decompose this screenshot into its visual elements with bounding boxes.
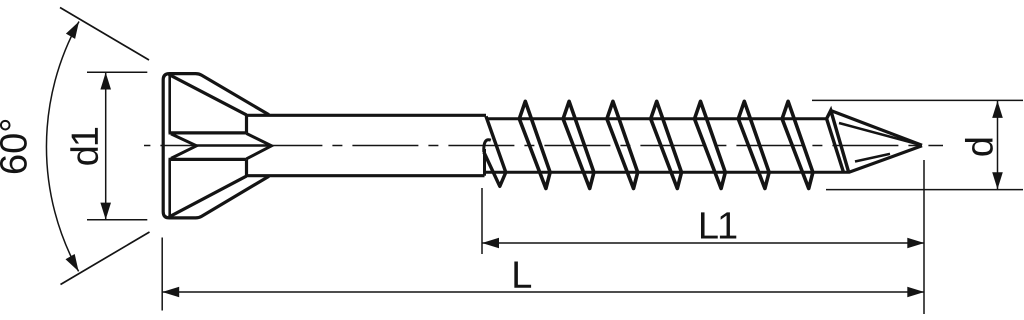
tip inner lower line — [855, 154, 890, 162]
thread root top line — [486, 117, 827, 120]
L extension line left — [161, 238, 163, 311]
L1 extension line left — [481, 188, 483, 254]
label L1 — [701, 212, 736, 238]
d1 arrow bottom — [100, 203, 111, 220]
60deg arc arrow top — [66, 22, 79, 39]
60deg upper construction line — [60, 8, 149, 61]
d extension line bottom — [826, 189, 1023, 191]
tip cone upper edge — [831, 111, 922, 146]
label 60deg — [0, 120, 27, 173]
head rim vertical bottom — [245, 159, 248, 176]
L arrow left — [162, 287, 179, 298]
head near-side cone edge top — [169, 74, 247, 115]
thread tooth 4 — [651, 101, 682, 188]
d extension line top — [812, 99, 1023, 101]
head outer silhouette — [163, 74, 269, 218]
thread start vertical — [483, 149, 486, 176]
label d — [965, 139, 993, 156]
d dimension line — [997, 101, 999, 189]
shank top edge — [247, 114, 487, 117]
recess right V — [247, 134, 272, 159]
L dimension line — [162, 291, 924, 293]
recess slot top edge — [169, 131, 247, 134]
recess slot bottom edge — [169, 158, 247, 161]
thread root bottom line — [485, 171, 850, 174]
thread tooth 2 — [563, 101, 594, 188]
label L — [514, 262, 531, 288]
centerline (screw axis, dash-dot) — [144, 145, 943, 147]
d arrow top — [992, 101, 1003, 118]
tip inner upper line — [839, 123, 922, 145]
recess left V — [171, 134, 197, 159]
head inner vertical top — [168, 75, 171, 133]
cone mini tooth — [827, 110, 849, 172]
recess axis line — [197, 144, 272, 147]
thread tooth 3 — [607, 101, 638, 188]
L1/L extension line right — [923, 160, 925, 314]
d1 dimension line — [105, 73, 107, 220]
60deg arc arrow bottom — [66, 254, 79, 271]
head inner vertical bottom — [168, 159, 171, 217]
head rim vertical top — [245, 115, 248, 133]
L arrow right — [907, 287, 924, 298]
thread tooth 7 — [782, 101, 813, 188]
head near-side cone edge bottom — [169, 176, 247, 217]
thread tooth 5 — [695, 101, 726, 188]
L1 arrow right — [907, 238, 924, 249]
label d1 — [70, 128, 98, 165]
thread tooth 1 — [519, 101, 550, 188]
60deg lower construction line — [61, 232, 150, 285]
thread tooth 6 — [738, 101, 769, 188]
thread runout curl — [484, 140, 491, 152]
d1 arrow top — [100, 73, 111, 90]
thread start crest diagonals — [484, 116, 506, 186]
60deg dimension arc — [46, 22, 79, 272]
d arrow bottom — [992, 172, 1003, 189]
d1 extension line top — [87, 71, 147, 73]
tip cone lower edge — [849, 146, 922, 173]
L1 arrow left — [482, 238, 499, 249]
L1 dimension line — [482, 242, 924, 244]
shank bottom edge — [247, 174, 485, 177]
d1 extension line bottom — [87, 219, 147, 221]
